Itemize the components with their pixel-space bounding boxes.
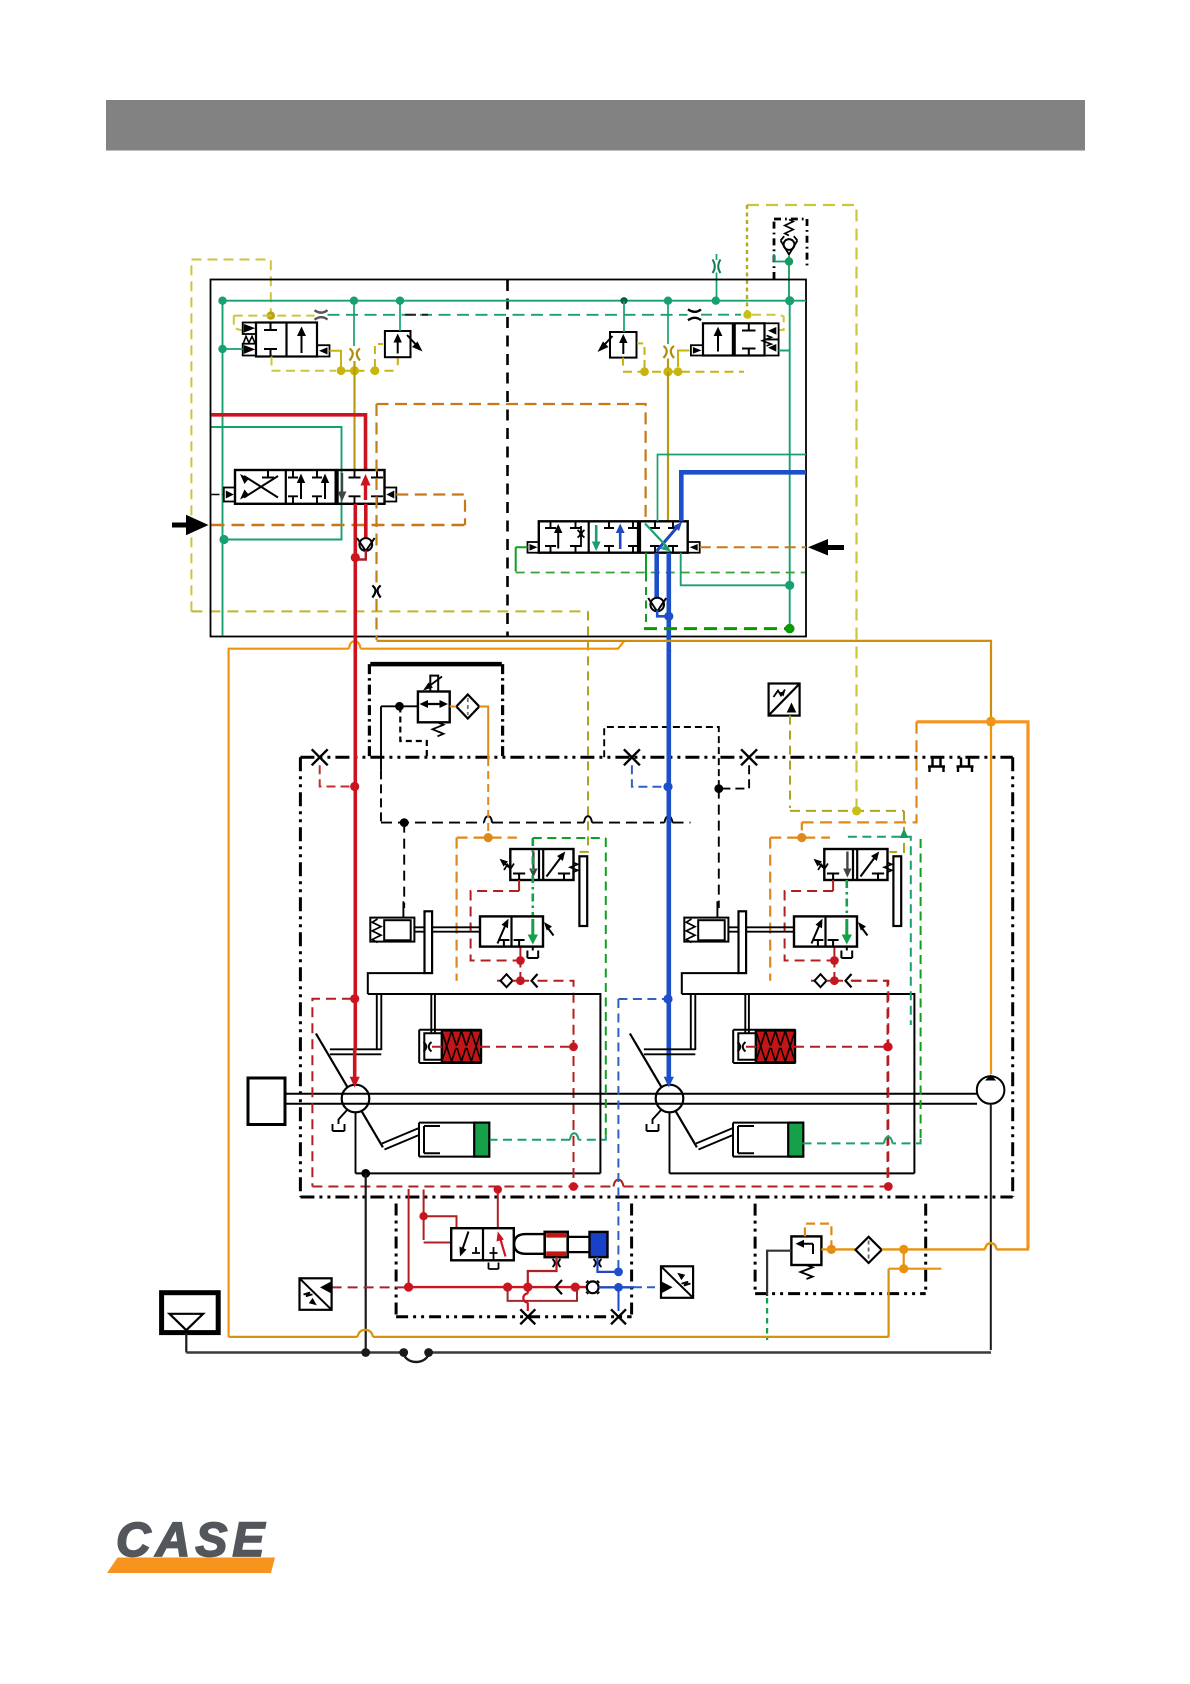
node orange J x903.7 (899, 1245, 908, 1254)
wire orange dashed drop x916.5 (802, 722, 917, 823)
node teal junction U-loop (219, 535, 228, 544)
swash diagonal L (316, 1034, 383, 1148)
wire green dashed drop x920.6 (920, 839, 922, 1139)
wire yellow riser to RV2 (637, 343, 645, 368)
wire orange charge loop left side (229, 641, 624, 1337)
wire black dash overlay y315 (405, 314, 428, 316)
servo valve SVR ports (812, 940, 838, 947)
wire red riser x408.6 (408, 1189, 410, 1284)
plug X4 red drain (520, 1309, 535, 1324)
brake valve BV right cell red arrow (500, 1236, 506, 1257)
node black junction module inlet (395, 702, 404, 711)
wire teal drop to RV2 (623, 301, 625, 332)
wire gold main drop x354.5 (353, 361, 355, 470)
wire red drop with hop to plug X4 (527, 1287, 529, 1311)
arrow input marker left (186, 515, 209, 535)
hop over red dashed x888.3 (884, 1137, 893, 1144)
valve UVR gray down arrow (846, 852, 848, 873)
check valve CV1 poppet circle (784, 239, 795, 250)
filter F1 diamond (456, 695, 479, 719)
wire yellow pilot left segment y315 (234, 316, 315, 331)
wire orange dashed riser to J orange right (801, 822, 803, 834)
wire black dashed module pilot (400, 707, 427, 759)
wire green dashed header left group (533, 837, 606, 839)
arm to accumulator L (382, 1128, 419, 1150)
gearbox input box (248, 1078, 285, 1125)
charge pump CP circle (977, 1076, 1005, 1104)
tank T symbol (162, 1293, 219, 1333)
wire red main into pump PL (353, 1048, 357, 1078)
hop marks on pilot bus (484, 816, 673, 822)
wire yellow RV2 drain (622, 358, 624, 370)
swash arm L (330, 1049, 381, 1054)
wire gold drop x668 to valve V4 (667, 359, 669, 522)
wire teal elbow below V4 (681, 553, 790, 586)
wire red dashed frame right pump (851, 981, 888, 1187)
servo cylinder CYLL (419, 1030, 481, 1063)
housing enclosure dash-dot border (300, 757, 1012, 1197)
PRV pilot head (430, 676, 438, 692)
wire red dashed spring sense L (432, 1046, 574, 1048)
wire green check valve tail (774, 254, 789, 299)
check-orifice line y980.7 (497, 980, 501, 982)
node yellow bus dots right (640, 367, 682, 376)
valve V1 left cell closed ports (264, 323, 277, 357)
pressure switch PSR box (661, 1266, 693, 1298)
valve block center divider dashed (506, 280, 509, 636)
wire blue dashed pilot right pump (618, 998, 664, 1000)
relief valve RV2 adjust arrow (600, 336, 613, 350)
node orange J relief out (827, 1245, 836, 1254)
relief valve RV3 arrow (800, 1244, 814, 1254)
wire black dashed pilot drop to right servo piston (718, 789, 720, 908)
brake valve BV exhaust port (489, 1247, 499, 1269)
node red JL3 (569, 1042, 578, 1051)
valve V4 left cap (528, 542, 539, 553)
check valve CV1 spring (785, 220, 793, 236)
wire yellow pilot to valve V2 cap (752, 315, 784, 330)
node blue junction y999 (663, 994, 672, 1003)
accumulator cylinder ACCL (419, 1123, 490, 1157)
valve UVR spring (884, 863, 892, 873)
check valve CV1 dash-dot frame (774, 219, 807, 279)
wire blue drop to plug X5 (618, 1287, 620, 1311)
node yellow bus dots (337, 366, 380, 375)
servo cylinder CYLR (733, 1030, 795, 1063)
wire red dashed spring sense R (746, 1046, 888, 1048)
node red bus dots (569, 1182, 578, 1191)
node red J x423.6 (419, 1212, 427, 1220)
wire blue dashed from plug X2 (632, 765, 664, 787)
check-orifice line y980.7 (811, 980, 815, 982)
valve V1 right cell flow arrow (301, 330, 303, 353)
cylinder rod L (431, 994, 435, 1033)
wire orange filter to pilot junction (479, 707, 488, 759)
wire orange dashed main bus y525 (212, 524, 466, 527)
node orange junction x991 (986, 717, 996, 727)
arrow olive into teal box (900, 829, 909, 839)
pump PR drain stub (647, 1110, 662, 1132)
wire black dashed from plug X3 (722, 765, 749, 788)
servo valve SVL left arrow (498, 922, 508, 944)
feedback bar R (893, 856, 901, 926)
brake valve BV body (451, 1228, 514, 1260)
wire gold supply line y641 (377, 641, 992, 719)
node black junction x365.7 y1173.4 (361, 1169, 370, 1178)
wire red pilot from UVL (518, 880, 520, 891)
pressure transducer T1 (769, 684, 800, 716)
wire orange return drop x888.6 (887, 1269, 889, 1337)
relief valve RV1 body (385, 331, 411, 357)
wire blue main drop x669 (666, 553, 671, 652)
orifice red below piston (553, 1259, 561, 1267)
valve V2 spring (762, 336, 771, 346)
wire orange dashed drop x456.6 (456, 838, 458, 981)
valve V1 right cap (317, 345, 330, 356)
wire blue dashed drop x618.4 (617, 999, 619, 1268)
shuttle ball circle (587, 1281, 599, 1293)
wire red drop from V3 port B (353, 504, 357, 555)
check valve diamond L (501, 974, 513, 987)
plug X3 on housing (741, 749, 757, 765)
wire green dashed return y572.5 (516, 572, 805, 574)
valve V2 left cell flow arrow (717, 330, 719, 352)
valve UVR body (824, 849, 887, 880)
relief valve RV3 body (791, 1236, 821, 1265)
orifice O2 on pilot bus (315, 310, 328, 319)
valve V1 spring (244, 336, 255, 343)
orifice O6 on orange drop (372, 586, 380, 598)
valve block enclosure rect (211, 280, 807, 637)
wire red main drop to pump section (353, 558, 357, 650)
accumulator cylinder ACCR (733, 1123, 804, 1157)
valve V3 right cap (385, 488, 397, 502)
wire blue drop to check CV3 (654, 553, 659, 598)
orifice blue below block (594, 1259, 602, 1267)
valve UVL ports (513, 874, 570, 881)
valve UVL right cell arrow (547, 855, 564, 877)
wire orange PRV to filter (450, 706, 457, 708)
node red J x497.8 (494, 1185, 502, 1193)
check valve CV2 (359, 538, 372, 551)
wire teal into V2 right cap (779, 301, 790, 351)
wire red dashed return bus y1186.5 (312, 1186, 888, 1188)
header gray title bar (106, 100, 1085, 151)
orifice in piston R (738, 1042, 746, 1052)
wire red supply from port A (212, 415, 366, 471)
green block L (474, 1123, 489, 1157)
hop on red bus over blue dashed (614, 1180, 624, 1187)
valve V1 solenoid caps (243, 323, 256, 356)
green block R (788, 1123, 803, 1157)
node yellow junction J1 (267, 311, 275, 319)
wire dark red top corner path to valve (423, 1190, 425, 1241)
pump PR case drain drop (669, 1112, 671, 1173)
wire dark red loop under bus (508, 1287, 577, 1301)
swash arm R (644, 1049, 695, 1054)
servo valve SVR left arrow (812, 922, 822, 944)
wire black riser reducing module (380, 770, 382, 822)
wire teal main drop x790 (789, 351, 791, 629)
node yellow junction J2 (743, 311, 751, 319)
wire yellow pilot bus y371 (341, 370, 398, 372)
check mark on red bus (556, 1280, 563, 1294)
wire orange stub y1268.7 (889, 1268, 942, 1270)
piston red seal block (545, 1232, 568, 1257)
wire red pilot bus y1287 (409, 1286, 587, 1288)
valve UVL body (510, 849, 573, 880)
pressure reducing valve PRV body (418, 692, 450, 723)
valve V3 cell2 up arrows (301, 477, 325, 499)
wire black charge pump drain (990, 1104, 992, 1350)
wire teal return U-loop (212, 427, 342, 540)
wire olive dashed header y811 (790, 811, 904, 852)
wire red to valve left port (424, 1242, 452, 1244)
wire orange dashed drop x770.2 (769, 838, 771, 981)
wire green dashed drain tail (766, 1298, 768, 1340)
test ports on housing right (928, 758, 974, 773)
wire red to check valve CV2 (364, 504, 368, 538)
node blue junction (664, 612, 673, 621)
wire dark red from CV2 to main (355, 551, 366, 560)
wire orange filter to main (882, 1248, 985, 1250)
brake valve BV left cell arrow (462, 1232, 469, 1253)
module box charge filter dash-dot (755, 1204, 926, 1294)
wire red branch to valve top (424, 1216, 457, 1228)
wire teal stub at orifice O1 (716, 254, 718, 300)
relief valve RV2 flow arrow (622, 338, 624, 355)
relief valve RV2 body (right group) (610, 332, 637, 358)
node green junction y628.6 (785, 624, 795, 634)
valve V3 cell1 crossed arrows (244, 476, 278, 498)
wire blue elbow from CV3 (657, 610, 669, 616)
node red bus J x408.6 (404, 1283, 413, 1292)
pump PL drain stub (333, 1110, 348, 1132)
wire blue from end block (598, 1257, 616, 1272)
exhaust port glyph L (527, 947, 538, 958)
reducing module frame sides dash-dot (369, 664, 502, 757)
wire teal drop to RV1 (399, 301, 401, 331)
wire green pilot dash-dot L (531, 838, 534, 916)
wire teal supply bus (223, 301, 807, 636)
wire olive dashed from transducer T1 (789, 716, 791, 808)
valve V3 red up arrow overlay (364, 480, 367, 500)
plug X1 on housing (312, 749, 328, 765)
wire teal drop to orifice O4 (353, 301, 355, 346)
wire black relief drain (767, 1251, 791, 1296)
wire orange dashed pilot from V4 right cap (700, 546, 806, 548)
node black junction x718.8 (714, 784, 723, 793)
PRV spring (433, 722, 444, 736)
valve V3 cell3 ports and arrows (349, 470, 384, 504)
red spring block R (756, 1031, 795, 1063)
orifice O4 gold (350, 349, 361, 361)
valve V4 cell3 crossed color arrows (650, 521, 678, 552)
wire yellow elbow to V2 cap (678, 351, 690, 368)
swash diagonal R (630, 1034, 697, 1148)
check valve CV3 (650, 598, 664, 612)
node blue bus J (614, 1283, 623, 1292)
valve V4 body (travel control right) (539, 521, 688, 552)
wire teal dashed to accumulator ACCR (802, 1139, 920, 1143)
wire yellow pilot loop top-left (191, 260, 270, 612)
servo valve SVR compensator arrow (860, 926, 868, 936)
valve V3 gray down arrow (341, 473, 343, 497)
wire orange charge pump feed x991 (990, 724, 992, 1074)
node teal junction V1 (218, 345, 226, 353)
wire red from piston seal (528, 1257, 557, 1284)
wire red dashed frame left pump (312, 999, 352, 1187)
reducing module top bar (370, 662, 502, 667)
wire green supply into V4 (516, 547, 528, 571)
drive shaft double line (285, 1094, 977, 1104)
pump PL circle (342, 1085, 370, 1113)
node olive junction x856.6 (852, 806, 861, 815)
node red JR1 (830, 956, 839, 965)
wire orange charge line through filter (821, 1248, 855, 1250)
wire teal drop to orifice O5 (667, 301, 669, 344)
arrow input marker right (808, 539, 828, 556)
check valve CV1 seat (781, 236, 798, 254)
node red JL2 (516, 976, 525, 985)
lever plate L (425, 911, 433, 973)
hop over red dashed x574 (570, 1133, 579, 1140)
valve V4 right cap (688, 542, 700, 553)
node black junction x404.2 (400, 818, 409, 827)
wire olive pilot x588 down to valve spring (575, 611, 589, 852)
servo piston PSTL (370, 918, 414, 942)
orifice O3 on pilot bus right (688, 309, 701, 320)
wire thick orange header y721.8 (917, 722, 1029, 1248)
pilot dome capsule (514, 1234, 554, 1254)
wire teal to V1 solenoid (223, 348, 243, 350)
wire yellow from V1 bottom port (272, 357, 337, 371)
wire yellow bus y611 (191, 610, 588, 612)
wire orange dashed loop upper (377, 404, 646, 521)
hop orange over drain x991 (985, 1243, 997, 1249)
valve V2 right caps with arrows (765, 323, 779, 339)
piston pilot stub R (716, 901, 718, 917)
wire black drain drop to tank bus (365, 1173, 367, 1352)
pressure switch PSL box (300, 1278, 332, 1310)
wire pilot dash-dot into valve V3 (212, 494, 225, 496)
relief valve RV3 spring (801, 1265, 813, 1279)
pump PL case drain drop (355, 1112, 357, 1173)
piston pilot stub L (402, 901, 404, 917)
plug X5 blue drain (611, 1309, 626, 1324)
red spring block L (442, 1031, 481, 1063)
cylinder rod R (745, 994, 749, 1033)
wire green pilot dash-dot R (845, 880, 848, 916)
servo valve SVL body (480, 916, 543, 946)
node red JL1 (516, 956, 525, 965)
CASE logo orange underline bar (107, 1558, 275, 1574)
wire blue dashed to switch PSR (634, 1286, 661, 1288)
arrow red into pump PL (350, 1077, 360, 1088)
orifice O1 above block (713, 260, 721, 274)
valve V3 body (travel control left) (235, 470, 385, 504)
valve V2 body (703, 323, 765, 355)
filter F2 diamond (856, 1237, 882, 1263)
node red junction below V3 (351, 553, 360, 562)
node red junction x355 y999 (350, 994, 359, 1003)
wire tank outlet (185, 1333, 187, 1353)
wire yellow relief RV1 drain (397, 357, 399, 369)
wire blue supply from V4 (681, 472, 806, 521)
wire red riser into valve right cell (497, 1189, 499, 1228)
flexible loop on return bus (404, 1353, 429, 1363)
feedback bar L (579, 856, 587, 926)
charge pump CP flow arrow (985, 1075, 996, 1081)
node red bus dots (503, 1283, 512, 1292)
wire orange dashed drop below orifice (375, 599, 377, 640)
node red JR2 (830, 976, 839, 985)
wire green dashed drop x605.8 (605, 838, 607, 1135)
wire teal dashed to accumulator ACCL (490, 1135, 606, 1140)
node orange junction right group (797, 833, 806, 842)
exhaust port glyph R (841, 947, 852, 958)
arm to accumulator R (696, 1128, 733, 1150)
node green junction CV1 out (785, 257, 793, 265)
wire teal dashed box top right group (848, 837, 911, 1025)
wire yellow dotted vertical x747 (746, 205, 748, 313)
pump PR circle (656, 1085, 684, 1113)
servo piston PSTR (684, 918, 728, 942)
servo valve SVL ports (498, 940, 524, 947)
valve UVR solenoid arrow (816, 861, 825, 869)
node bus dots (361, 1348, 370, 1357)
node blue junction on main x668.8 (663, 782, 672, 791)
valve V2 right cell closed ports (742, 323, 756, 355)
green flow arrow in servo L (531, 919, 534, 939)
arrow blue into pump PR (664, 1077, 674, 1088)
node teal bus junctions (218, 296, 794, 305)
wire orange dashed RV3 pilot (805, 1224, 832, 1246)
node orange J y1268.7 (899, 1264, 908, 1273)
node red JR3 (883, 1042, 892, 1051)
blue end block (590, 1232, 608, 1257)
wire yellow pilot bus y372 right group (623, 371, 744, 373)
wire yellow box top-right (747, 205, 857, 808)
wire red pilot from UVR (832, 880, 834, 891)
orifice in piston L (424, 1042, 432, 1052)
valve UVL gray down arrow (532, 852, 534, 873)
check valve diamond R (815, 974, 827, 987)
orifice O5 gold right (664, 346, 675, 358)
wire orange dashed pilot header left group (457, 836, 517, 838)
PRV double arrow (423, 703, 445, 705)
wire green dashed drop x646 (645, 574, 647, 627)
valve UVR right cell arrow (861, 855, 878, 877)
hop orange over drain x365.7 (358, 1330, 374, 1337)
wire black dashed drop to left servo piston (403, 823, 405, 908)
mech frame L (356, 973, 601, 1173)
wire blue main through mid (666, 650, 671, 1078)
node red J right frame (884, 1042, 893, 1051)
valve V3 left cap (224, 488, 235, 502)
wire red dashed from plug X1 (320, 765, 351, 786)
wire dark red dashed from switch PSL (332, 1286, 405, 1288)
check mark arrow L (532, 974, 538, 987)
servo valve SVR body (794, 916, 857, 946)
wire orange return bus y1337 (229, 1336, 889, 1338)
node teal junction x790 (785, 581, 794, 590)
wire orange dashed pilot header right group (770, 836, 830, 838)
wire teal thin top into V4 (658, 455, 807, 522)
valve V1 body (256, 323, 317, 357)
wire green dashed pilot bus y315 (328, 314, 688, 316)
wire green drop below V4 (645, 553, 647, 574)
